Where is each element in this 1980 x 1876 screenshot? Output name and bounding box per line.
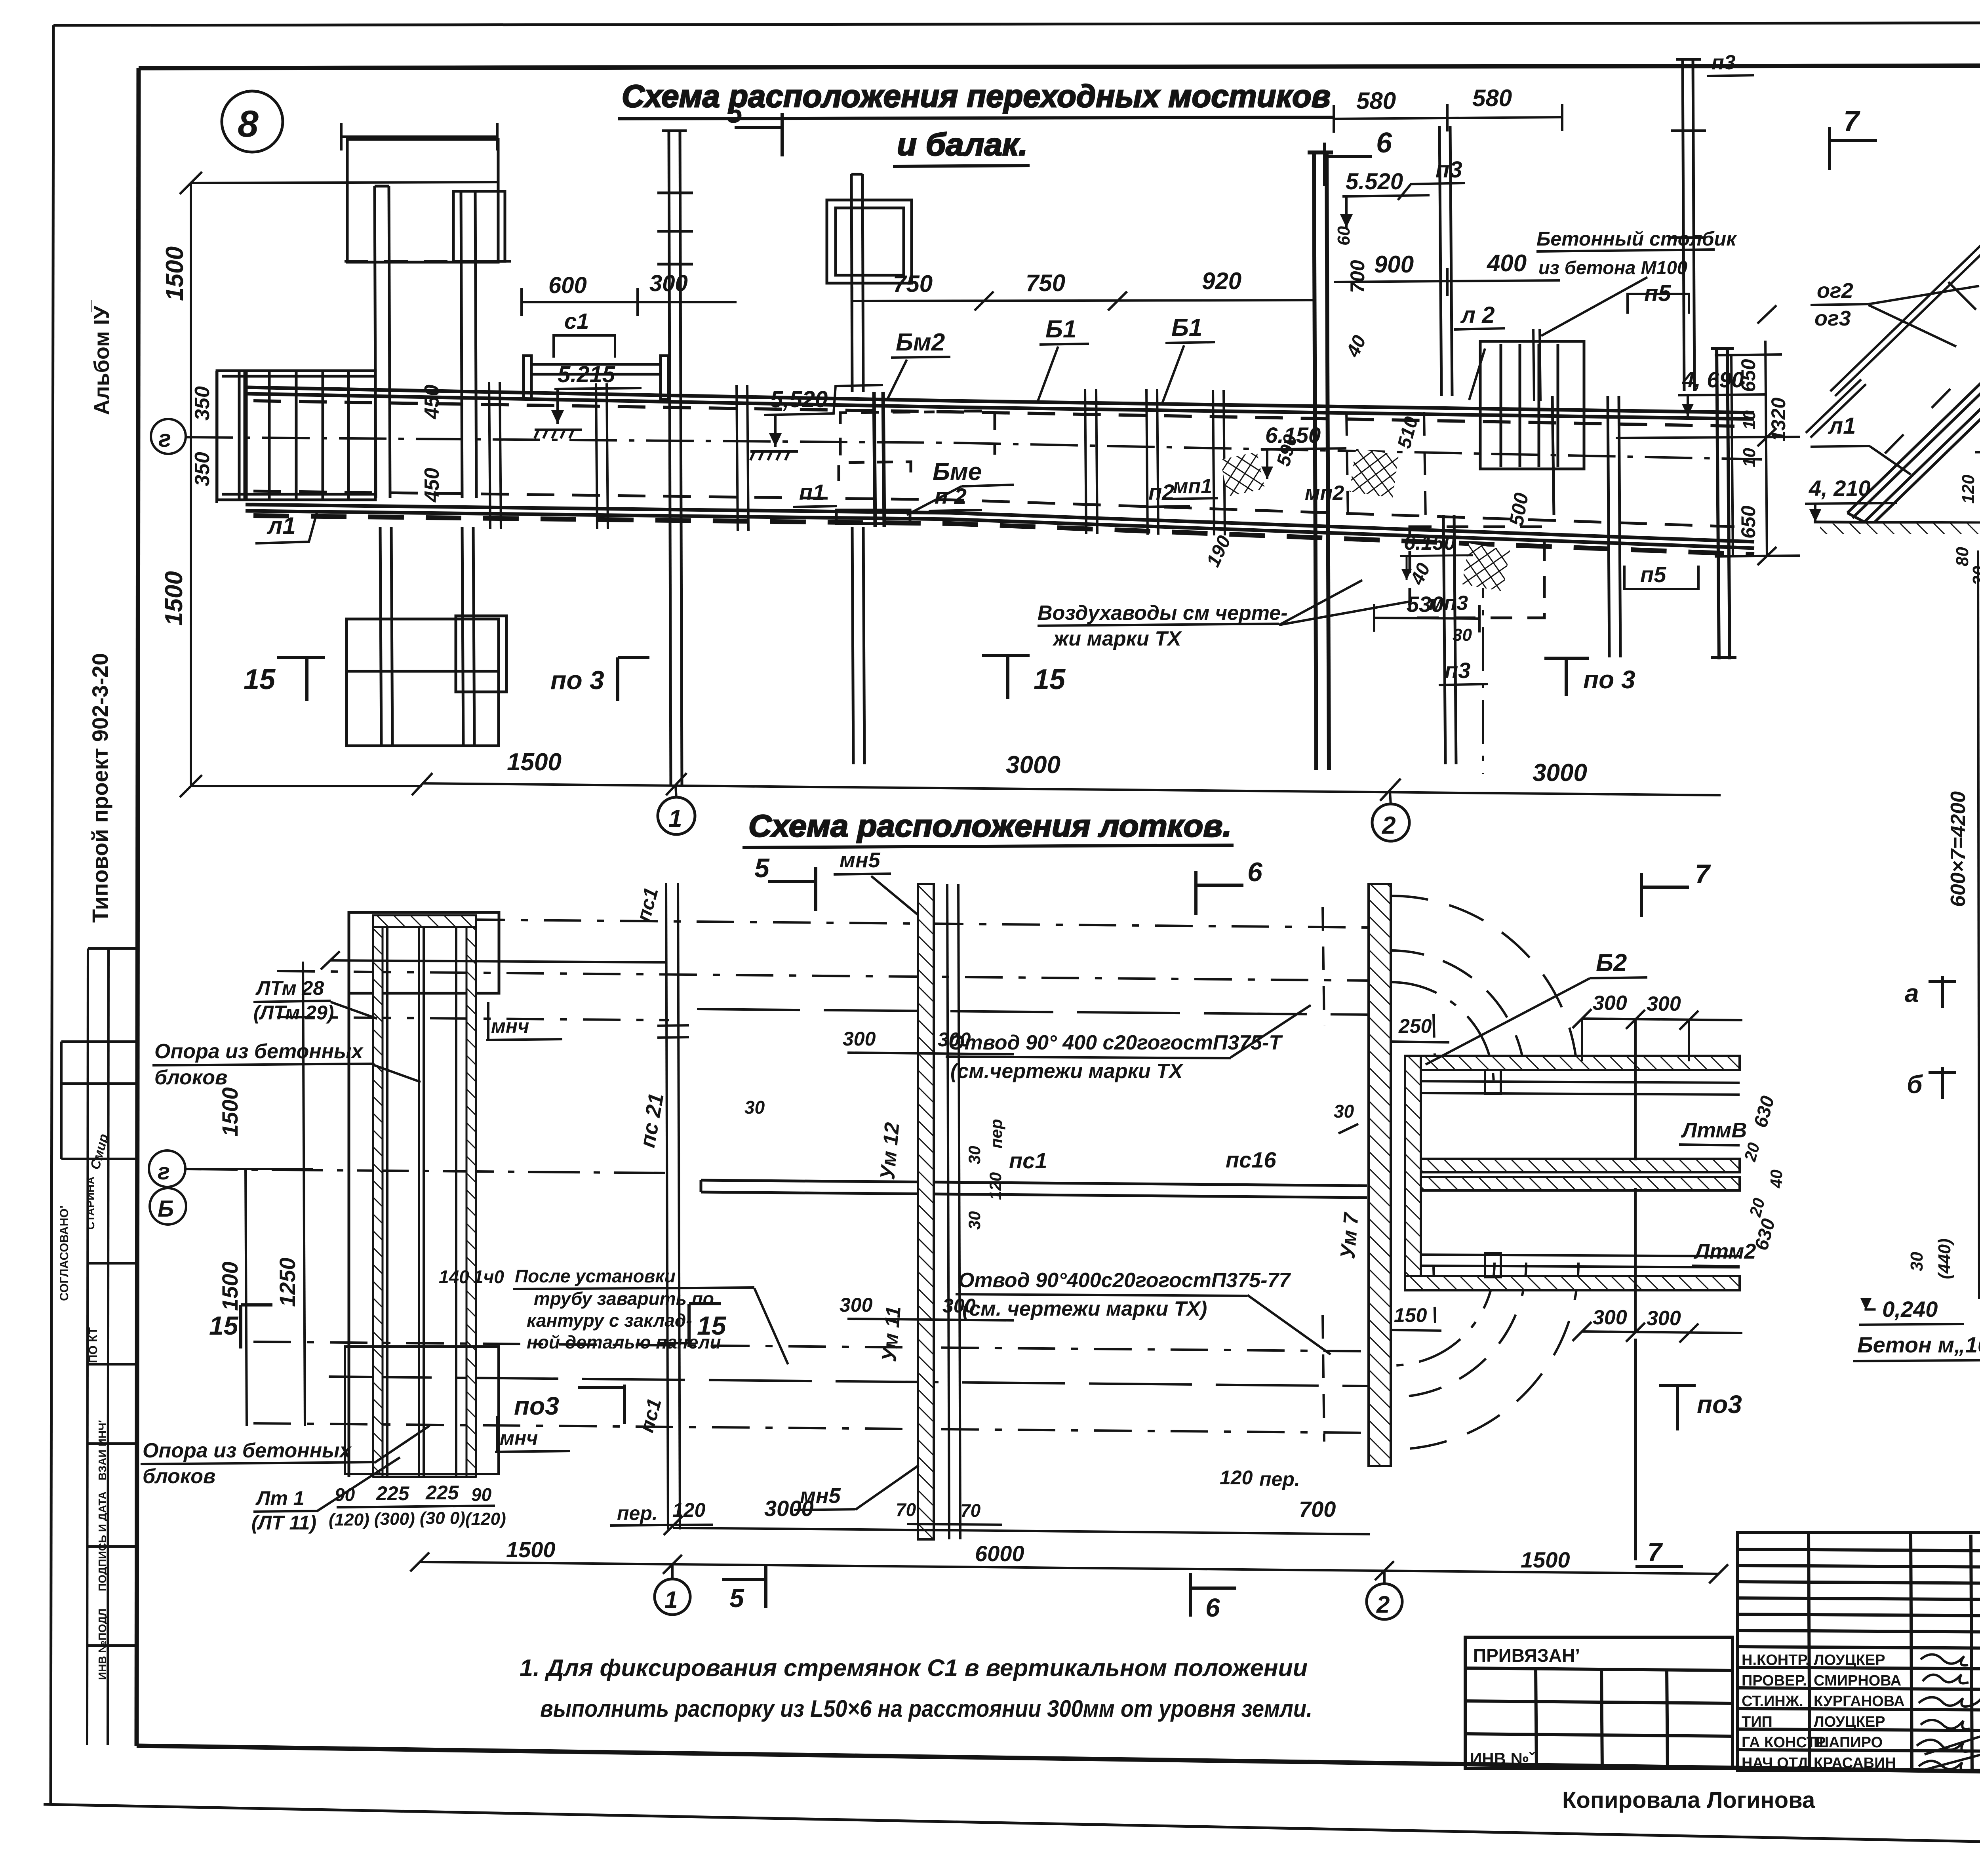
axis Г dash-dot: [185, 437, 1762, 459]
stair stringers: [1847, 322, 1980, 527]
svg-text:650: 650: [1737, 505, 1759, 539]
svg-text:(ЛТ 11): (ЛТ 11): [251, 1512, 316, 1534]
svg-text:4, 690: 4, 690: [1682, 367, 1744, 392]
svg-text:2: 2: [1376, 1591, 1390, 1618]
grid circle 2 top: [1390, 792, 1391, 805]
signatures squiggles: [1917, 1655, 1980, 1771]
ladder L1 top plan: [217, 371, 375, 500]
C1 posts on plan: [524, 356, 668, 399]
svg-text:40: 40: [1767, 1169, 1786, 1188]
svg-text:225: 225: [376, 1482, 410, 1505]
svg-text:8: 8: [238, 103, 259, 145]
right end wall of plan: [1711, 349, 1736, 659]
svg-text:600×7=4200: 600×7=4200: [1947, 791, 1970, 907]
dash-dot channel axes upper: [277, 920, 1368, 1020]
dims 300 300 at УМ11 bottom: [847, 1319, 1014, 1320]
U-turn dashed arcs top: [1391, 896, 1578, 1085]
svg-text:а: а: [1905, 979, 1919, 1008]
grid circle 1 bottom: [671, 1565, 674, 1579]
svg-text:мнч: мнч: [500, 1427, 538, 1449]
mark 7 bottom plan: [1641, 873, 1689, 917]
svg-text:30: 30: [1907, 1252, 1927, 1271]
svg-text:300: 300: [1593, 1306, 1627, 1329]
svg-text:300: 300: [840, 1294, 873, 1316]
svg-text:Отвод 90° 400 с20гогостП375-Т: Отвод 90° 400 с20гогостП375-Т: [948, 1031, 1283, 1054]
svg-text:700: 700: [1346, 260, 1369, 293]
svg-text:1500: 1500: [161, 246, 188, 301]
svg-text:ЛТм 28: ЛТм 28: [255, 977, 324, 999]
svg-text:300: 300: [1647, 992, 1681, 1015]
svg-text:Бм2: Бм2: [896, 329, 945, 356]
svg-text:из бетона М100: из бетона М100: [1538, 257, 1687, 278]
svg-text:140: 140: [439, 1267, 469, 1287]
svg-text:пер: пер: [987, 1119, 1005, 1148]
svg-text:ИНВ №ПОДЛ: ИНВ №ПОДЛ: [96, 1608, 109, 1680]
mark 6 bottom plan: [1196, 871, 1243, 915]
svg-text:СОГЛАСОВАНО': СОГЛАСОВАНО': [58, 1206, 71, 1301]
channel inner lines: [1421, 1093, 1740, 1256]
dim 580/580 top: [1334, 104, 1562, 133]
svg-text:Бме: Бме: [933, 458, 982, 486]
svg-text:мн5: мн5: [840, 848, 881, 872]
svg-text:п5: п5: [1640, 562, 1666, 587]
mark по 3 left: [618, 657, 649, 701]
svg-text:п1: п1: [799, 480, 825, 505]
svg-text:л1: л1: [267, 512, 296, 539]
svg-text:1ч0: 1ч0: [473, 1267, 504, 1287]
svg-text:ог2: ог2: [1817, 279, 1853, 303]
mark по3 bottom right: [1659, 1385, 1696, 1430]
bracket below axis x~2200: [839, 462, 911, 481]
svg-text:ШАПИРО: ШАПИРО: [1814, 1734, 1883, 1751]
svg-text:15: 15: [1034, 664, 1066, 695]
svg-text:300: 300: [843, 1028, 876, 1050]
lower-left rect cluster below band: [346, 527, 506, 746]
svg-text:л1: л1: [1828, 413, 1856, 439]
svg-text:1500: 1500: [217, 1261, 242, 1311]
svg-text:1250: 1250: [275, 1257, 300, 1307]
svg-text:(ЛТм 29): (ЛТм 29): [253, 1002, 334, 1024]
dashed band right verticals: [1346, 412, 1426, 519]
пс1/пс16 middle beam: [701, 1180, 1367, 1198]
svg-text:блоков: блоков: [154, 1066, 227, 1089]
section mark 6 top: [1325, 143, 1372, 186]
dim 900/400: [1334, 268, 1560, 296]
svg-text:400: 400: [1487, 250, 1527, 276]
svg-text:250: 250: [1398, 1015, 1432, 1037]
svg-text:мнч: мнч: [491, 1015, 529, 1037]
svg-text:пс16: пс16: [1226, 1147, 1276, 1172]
crosshatch patch МП2: [1350, 449, 1399, 498]
svg-text:15: 15: [209, 1311, 239, 1340]
svg-text:Воздухаводы см черте-: Воздухаводы см черте-: [1038, 602, 1288, 625]
svg-text:Ум 11: Ум 11: [878, 1305, 905, 1363]
svg-text:(120): (120): [329, 1510, 369, 1529]
svg-text:1500: 1500: [506, 1537, 556, 1562]
svg-text:ГА КОНСТР: ГА КОНСТР: [1742, 1734, 1826, 1751]
svg-text:6.150: 6.150: [1404, 531, 1455, 554]
svg-text:90: 90: [335, 1484, 355, 1505]
svg-text:1500: 1500: [507, 748, 562, 776]
svg-text:пер.: пер.: [1259, 1468, 1300, 1490]
svg-text:80: 80: [1953, 547, 1972, 566]
svg-text:30: 30: [965, 1146, 984, 1164]
svg-text:п3: п3: [1712, 51, 1736, 74]
svg-text:Опора из бетонных: Опора из бетонных: [143, 1439, 352, 1462]
svg-text:450: 450: [421, 385, 444, 419]
svg-text:(см. чертежи марки ТХ): (см. чертежи марки ТХ): [962, 1297, 1207, 1320]
svg-text:Б: Б: [158, 1196, 174, 1222]
svg-text:Ум 7: Ум 7: [1336, 1211, 1363, 1260]
main bottom dim line 1500/6000/1500: [410, 1552, 1728, 1583]
axis circle Г: [151, 419, 186, 454]
dashed line inside band top: [253, 401, 1734, 426]
svg-text:750: 750: [1026, 270, 1065, 296]
svg-text:пс1: пс1: [1009, 1148, 1047, 1173]
svg-text:л 2: л 2: [1460, 302, 1495, 328]
svg-text:10: 10: [1740, 448, 1759, 467]
left dim 1500 upper: [180, 172, 498, 437]
wall at x~2200 crossing band: [874, 392, 884, 527]
svg-text:мп1: мп1: [1173, 475, 1212, 498]
svg-text:3000: 3000: [1533, 759, 1587, 787]
heavy wall at axis 2 (x~3330): [1308, 152, 1333, 770]
svg-text:6: 6: [1376, 127, 1392, 159]
svg-text:5,520: 5,520: [770, 387, 828, 412]
tick pairs crossing band: [489, 382, 1225, 535]
бетонный столбик verticals: [1533, 329, 1540, 401]
section mark 15 left: [277, 657, 325, 701]
svg-text:1. Для фиксирования стремянок: 1. Для фиксирования стремянок С1 в верти…: [520, 1655, 1308, 1681]
svg-text:мн5: мн5: [800, 1484, 841, 1508]
svg-text:6: 6: [1247, 857, 1263, 887]
svg-text:580: 580: [1472, 85, 1512, 111]
svg-text:5: 5: [729, 1583, 744, 1613]
svg-text:г: г: [158, 1159, 170, 1185]
column above band x~2150: [827, 174, 912, 764]
svg-text:трубу заварить по: трубу заварить по: [534, 1288, 714, 1309]
dim 600/300 with C1: [522, 288, 737, 316]
svg-text:1500: 1500: [160, 571, 188, 626]
svg-text:выполнить распорку из L50×6 на: выполнить распорку из L50×6 на расстояни…: [540, 1695, 1312, 1722]
svg-text:ЛОУЦКЕР: ЛОУЦКЕР: [1814, 1714, 1885, 1730]
svg-text:КУРГАНОВА: КУРГАНОВА: [1814, 1693, 1905, 1710]
svg-text:Б2: Б2: [1596, 949, 1627, 977]
grid circle 1 top: [676, 786, 676, 798]
svg-text:530: 530: [1407, 592, 1443, 617]
svg-text:60: 60: [1334, 226, 1354, 246]
ground line hatched left of pit: [1814, 522, 1980, 523]
svg-text:920: 920: [1202, 268, 1241, 294]
dim 750/750/920: [852, 287, 1314, 392]
staff table: [1738, 1533, 1980, 1771]
svg-text:120: 120: [986, 1172, 1005, 1200]
dashed line through chimney: [345, 260, 511, 263]
wall right pair axis2: [1439, 126, 1452, 396]
svg-text:Копировала Логинова: Копировала Логинова: [1562, 1787, 1815, 1813]
dims 300 300 top right: [1573, 1009, 1742, 1160]
svg-text:90: 90: [471, 1484, 492, 1505]
mark 7 bottom: [1635, 1339, 1683, 1566]
dim 530/30 below МП3: [1374, 604, 1479, 632]
svg-text:ПРИВЯЗАНʼ: ПРИВЯЗАНʼ: [1473, 1645, 1580, 1666]
dim chain right: 650/10/1320/10/650: [1616, 305, 1800, 565]
mark по3 bottom left: [578, 1385, 624, 1424]
dash-dot channel axes lower: [253, 1342, 1368, 1433]
svg-text:600: 600: [548, 272, 587, 298]
svg-text:Б1: Б1: [1171, 314, 1202, 341]
svg-text:СТАРИНА: СТАРИНА: [84, 1177, 97, 1230]
svg-text:450: 450: [421, 468, 444, 503]
svg-text:После установки: После установки: [515, 1266, 676, 1286]
mark 6 bottom: [1190, 1573, 1236, 1617]
svg-text:1: 1: [664, 1587, 678, 1613]
heavy dashed line below band: [253, 516, 1754, 554]
svg-text:300: 300: [1593, 992, 1627, 1015]
svg-text:1500: 1500: [217, 1087, 242, 1137]
left small table ПРИВЯЗАН: [1465, 1637, 1732, 1770]
svg-text:(см.чертежи марки ТХ: (см.чертежи марки ТХ: [950, 1060, 1184, 1083]
svg-text:Альбом IУ̅: Альбом IУ̅: [90, 299, 114, 415]
mark 5 bottom: [722, 1564, 766, 1608]
svg-text:по3: по3: [1697, 1390, 1742, 1419]
svg-text:(600×6=3600): (600×6=3600): [1978, 783, 1980, 913]
svg-text:ной деталью панели: ной деталью панели: [527, 1332, 721, 1352]
column at axis 1 (x~1700): [657, 131, 693, 786]
Опора из бетонных блоков (left support): [349, 912, 499, 1477]
svg-text:120: 120: [1959, 474, 1978, 504]
svg-text:4, 210: 4, 210: [1809, 476, 1871, 501]
svg-text:ЛОУЦКЕР: ЛОУЦКЕР: [1814, 1652, 1885, 1668]
main band: walkway top edge: [246, 387, 1754, 419]
dims 300 300 at УМ12 top: [847, 1053, 1014, 1054]
bottom dim line of top plan 1500/3000: [412, 773, 1721, 801]
МП3 dashed panel: [1410, 527, 1544, 618]
svg-text:Схема расположения лотков.: Схема расположения лотков.: [748, 808, 1232, 843]
svg-text:Лтм2: Лтм2: [1693, 1240, 1756, 1263]
verticals right of axis2 below band: [1443, 396, 1620, 764]
svg-text:СТ.ИНЖ.: СТ.ИНЖ.: [1742, 1693, 1803, 1710]
svg-text:НАЧ ОТД: НАЧ ОТД: [1742, 1755, 1808, 1771]
svg-text:225: 225: [425, 1482, 459, 1504]
svg-text:п 2: п 2: [935, 484, 967, 509]
top-left dim line: [341, 123, 497, 150]
svg-text:5.520: 5.520: [1346, 169, 1403, 194]
svg-text:5: 5: [754, 853, 770, 883]
svg-text:Бетон м„100“: Бетон м„100“: [1857, 1332, 1980, 1357]
axis Г line bottom plan: [186, 1169, 669, 1173]
svg-text:(300): (300): [374, 1509, 415, 1529]
svg-text:20: 20: [1969, 566, 1980, 586]
svg-text:(440): (440): [1935, 1238, 1954, 1279]
svg-text:ог3: ог3: [1814, 307, 1851, 330]
svg-text:− 0,240: − 0,240: [1863, 1297, 1938, 1322]
svg-text:и балак.: и балак.: [897, 127, 1028, 162]
svg-text:15: 15: [244, 664, 276, 695]
svg-text:блоков: блоков: [143, 1465, 215, 1488]
left dim lines of block column: [1978, 550, 1980, 1299]
svg-text:30: 30: [1334, 1101, 1354, 1122]
svg-text:по3: по3: [514, 1392, 559, 1420]
sidebar column lines: [61, 948, 138, 1745]
svg-text:ВЗАИ ИНЧ′: ВЗАИ ИНЧ′: [96, 1420, 109, 1480]
dim 350/350: [215, 371, 218, 503]
bottom support outline: [345, 1347, 499, 1474]
svg-text:г: г: [158, 425, 171, 452]
svg-text:ТИП: ТИП: [1742, 1714, 1772, 1730]
svg-text:120: 120: [672, 1499, 706, 1521]
section mark 5 top: [735, 113, 782, 156]
svg-text:п3: п3: [1435, 157, 1462, 183]
section mark 7 top: [1830, 127, 1877, 170]
hatched wall УМ12/УМ11 (x~2330): [918, 884, 934, 1539]
mark 5 bottom plan: [768, 867, 816, 911]
svg-text:900: 900: [1374, 251, 1414, 278]
svg-text:350: 350: [191, 386, 214, 421]
svg-text:ПОДПИСЬ И ДАТА: ПОДПИСЬ И ДАТА: [96, 1491, 109, 1591]
walkway bottom edge: [246, 505, 1754, 548]
axis circles Г and Б: [149, 1150, 185, 1187]
svg-text:(30 0): (30 0): [420, 1508, 465, 1528]
section mark 15 bottom left: [241, 1305, 272, 1348]
svg-text:ИНВ №ˇ: ИНВ №ˇ: [1470, 1749, 1535, 1768]
right channels hatched: top strip: [1405, 1056, 1740, 1290]
svg-text:5: 5: [727, 97, 743, 129]
left dims 1500/1250 rotated: [186, 962, 313, 1426]
svg-text:30: 30: [744, 1097, 765, 1118]
U-turn dashed arcs bottom: [1392, 1263, 1578, 1449]
crosshatch patch МП1: [1220, 452, 1265, 497]
svg-text:7: 7: [1647, 1537, 1663, 1567]
label L1: [255, 512, 317, 543]
svg-text:КРАСАВИН: КРАСАВИН: [1814, 1755, 1896, 1771]
ladder Л2 on plan: [1480, 341, 1584, 469]
svg-text:150: 150: [1394, 1304, 1427, 1326]
dashed verticals around УМ7: [1323, 907, 1435, 1442]
top-left chimney structure: [347, 139, 505, 498]
svg-text:300: 300: [1647, 1307, 1681, 1330]
svg-text:10: 10: [1740, 410, 1759, 430]
small stubs on channels: [1485, 1070, 1501, 1277]
svg-text:с1: с1: [564, 309, 589, 333]
svg-text:п3: п3: [1445, 658, 1470, 683]
pedestal below band: [836, 510, 910, 524]
svg-text:15: 15: [697, 1311, 727, 1340]
svg-text:6: 6: [1205, 1593, 1220, 1622]
svg-text:Опора из бетонных: Опора из бетонных: [154, 1040, 364, 1063]
svg-text:жи марки ТХ: жи марки ТХ: [1052, 627, 1182, 650]
П3 column right (x~4260): [1671, 59, 1706, 391]
svg-text:30: 30: [965, 1211, 984, 1230]
dashed bracket П1 panel: [840, 411, 995, 455]
svg-text:пер.: пер.: [617, 1502, 658, 1524]
stair balusters: [1885, 198, 1980, 453]
svg-text:Лт 1: Лт 1: [255, 1487, 305, 1509]
sidebar vertical texts: [58, 299, 114, 1680]
wall пс21 (x~1690): [657, 883, 689, 1529]
svg-text:70: 70: [896, 1499, 916, 1520]
mark по 3 right: [1544, 658, 1589, 696]
svg-text:(120): (120): [465, 1509, 506, 1529]
svg-text:2: 2: [1382, 812, 1396, 839]
section marks a and б: [1929, 972, 1980, 1099]
svg-text:СМИРНОВА: СМИРНОВА: [1814, 1672, 1901, 1689]
svg-text:7: 7: [1695, 859, 1711, 889]
dims 300 300 bottom right: [1573, 1188, 1742, 1343]
svg-text:6000: 6000: [975, 1541, 1024, 1566]
svg-text:30: 30: [1453, 625, 1472, 645]
svg-text:ПО КТ: ПО КТ: [87, 1327, 100, 1363]
svg-text:Отвод 90°400с20гогостП375-77: Отвод 90°400с20гогостП375-77: [958, 1269, 1291, 1292]
svg-text:70: 70: [960, 1500, 981, 1521]
svg-text:ЛтмВ: ЛтмВ: [1681, 1118, 1747, 1142]
title: Схема расположения переходных мостиков и балок: [618, 78, 1335, 166]
svg-text:Бетонный столбик: Бетонный столбик: [1536, 228, 1737, 250]
svg-text:3000: 3000: [1006, 751, 1060, 779]
svg-text:по 3: по 3: [1583, 665, 1635, 694]
svg-text:Н.КОНТР.: Н.КОНТР.: [1742, 1652, 1810, 1668]
dashed line inside band bottom: [253, 491, 1734, 527]
svg-text:б: б: [1907, 1070, 1923, 1099]
svg-text:Б1: Б1: [1045, 316, 1076, 343]
section mark 15 right: [982, 655, 1030, 699]
stair handrail: [1806, 138, 1980, 438]
svg-text:580: 580: [1356, 88, 1396, 114]
hatched wall УМ7 (x~3480): [1369, 884, 1391, 1466]
svg-text:7: 7: [1843, 105, 1860, 137]
svg-text:120: 120: [1220, 1467, 1253, 1489]
left dim 1500 lower: [180, 437, 422, 797]
svg-text:5.215: 5.215: [558, 362, 615, 387]
svg-text:1320: 1320: [1767, 398, 1790, 442]
svg-text:700: 700: [1299, 1497, 1336, 1522]
svg-text:ПРОВЕР.: ПРОВЕР.: [1742, 1672, 1807, 1689]
svg-text:350: 350: [191, 452, 214, 486]
svg-text:мп2: мп2: [1305, 482, 1344, 505]
svg-text:Типовой проект 902-3-20: Типовой проект 902-3-20: [88, 653, 112, 923]
svg-text:1500: 1500: [1521, 1547, 1570, 1572]
svg-text:750: 750: [893, 270, 933, 297]
svg-text:п2: п2: [1148, 480, 1174, 505]
circled 8 mark: [222, 91, 283, 152]
svg-text:300: 300: [649, 270, 688, 296]
grid circle 2 bottom: [1383, 1571, 1386, 1584]
svg-text:кантуру с заклад-: кантуру с заклад-: [527, 1310, 692, 1331]
15 mark near middle: [689, 1304, 721, 1347]
svg-text:1: 1: [668, 805, 682, 832]
svg-text:по 3: по 3: [550, 665, 604, 695]
